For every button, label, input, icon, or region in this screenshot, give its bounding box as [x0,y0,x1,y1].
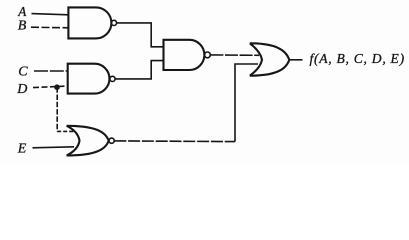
NAND gate G3 (second level) [164,40,211,70]
wire G2 output to G3 bottom input [115,61,163,79]
NOR gate G5 (inputs D,E) [67,126,115,156]
NAND gate G2 (inputs C,D) [68,64,115,94]
junction dot on D [54,84,60,90]
svg-text:A: A [17,4,27,19]
svg-text:C: C [18,65,28,80]
wire riser up to OR bottom input [235,64,258,142]
OR gate G4 (output stage) [250,43,289,75]
wire input E [33,147,75,148]
svg-text:f(A, B, C, D, E): f(A, B, C, D, E) [310,51,405,67]
wire input C [34,70,68,72]
svg-text:D: D [16,82,27,97]
wire OR output [289,59,302,61]
wire G1 output to G3 top input [117,23,164,47]
wire input A [32,14,69,15]
svg-text:E: E [17,141,27,156]
wire input D [33,86,68,88]
wire G3 output to OR top input [210,54,259,56]
NAND gate G1 (inputs A,B) [68,7,116,38]
wire D branch vertical [56,87,58,131]
svg-text:B: B [18,18,27,33]
wire NOR output to vertical riser [114,140,235,143]
wire D branch horizontal into NOR [57,130,75,132]
wire input B [31,26,68,29]
